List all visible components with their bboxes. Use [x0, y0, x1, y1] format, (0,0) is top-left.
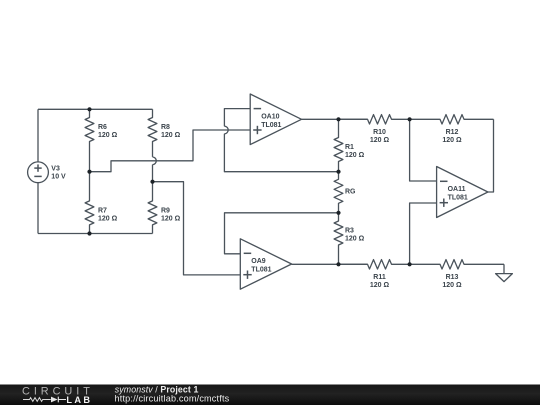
junction node at 409.6,119.3	[408, 117, 412, 121]
svg-text:120 Ω: 120 Ω	[161, 216, 181, 223]
op-amp OA11	[437, 167, 488, 218]
wire OA11 output feedback to R12	[488, 119, 494, 192]
svg-text:120 Ω: 120 Ω	[345, 236, 365, 243]
svg-text:R12: R12	[446, 129, 459, 136]
svg-text:R10: R10	[373, 129, 386, 136]
wire V3 bottom lead	[37, 183, 39, 234]
junction node at 338.5,119.3	[336, 117, 340, 121]
svg-text:OA9: OA9	[251, 258, 265, 265]
svg-text:OA10: OA10	[261, 113, 279, 120]
svg-text:10 V: 10 V	[51, 173, 66, 180]
svg-text:R11: R11	[373, 274, 386, 281]
wire OA9 output to bottom rail	[292, 263, 368, 265]
junction node at 89.5,109.3	[87, 107, 91, 111]
wire OA11 plus input from R11-R13 node	[410, 203, 437, 264]
wire top rail V3 to R8	[38, 108, 153, 110]
svg-text:120 Ω: 120 Ω	[345, 152, 365, 159]
logo diode	[51, 397, 58, 403]
resistor R6	[85, 109, 118, 171]
svg-text:http://circuitlab.com/cmctfts: http://circuitlab.com/cmctfts	[115, 393, 230, 403]
resistor R8	[148, 109, 181, 157]
wire R8 to node	[152, 165, 154, 182]
svg-text:V3: V3	[51, 165, 60, 172]
svg-text:OA11: OA11	[448, 186, 466, 193]
wire bridge right node to OA9 plus input	[153, 182, 241, 275]
junction node at 409.6,264.3	[408, 262, 412, 266]
svg-text:120 Ω: 120 Ω	[98, 132, 118, 139]
svg-text:R9: R9	[161, 208, 170, 215]
wire V3 top lead	[37, 109, 39, 162]
wire bottom-left rail	[38, 233, 153, 235]
svg-text:R3: R3	[345, 228, 354, 235]
svg-text:120 Ω: 120 Ω	[370, 137, 390, 144]
junction node at 152.5,181.7	[150, 180, 154, 184]
svg-text:TL081: TL081	[251, 267, 271, 274]
junction node at 89.5,233.5	[87, 231, 91, 235]
resistor R10	[339, 115, 410, 144]
svg-text:120 Ω: 120 Ω	[98, 216, 118, 223]
resistor R11	[339, 260, 410, 289]
op-amp OA10	[250, 94, 301, 145]
resistor R9	[148, 182, 181, 234]
svg-text:120 Ω: 120 Ω	[442, 282, 462, 289]
svg-text:120 Ω: 120 Ω	[370, 282, 390, 289]
wire hop OA10 feedback over plus wire	[224, 126, 228, 134]
svg-text:R1: R1	[345, 144, 354, 151]
resistor RG	[334, 172, 356, 213]
wire ground stub	[503, 264, 505, 273]
wire OA10 minus input feedback	[224, 109, 338, 172]
wire hop R8 column over bridge wire	[153, 157, 157, 165]
ground	[496, 274, 513, 282]
svg-text:RG: RG	[345, 188, 356, 195]
svg-text:R6: R6	[98, 124, 107, 131]
svg-text:R7: R7	[98, 208, 107, 215]
junction node at 338.5,264.3	[336, 262, 340, 266]
svg-text:TL081: TL081	[261, 122, 281, 129]
svg-text:120 Ω: 120 Ω	[442, 137, 462, 144]
svg-text:R13: R13	[446, 274, 459, 281]
resistor R12	[410, 115, 494, 144]
svg-text:TL081: TL081	[448, 195, 468, 202]
resistor R1	[334, 119, 365, 171]
wire bridge left node to OA10 plus input	[90, 130, 251, 172]
resistor R3	[334, 213, 365, 264]
svg-text:R8: R8	[161, 124, 170, 131]
junction node at 89.5,171.7	[87, 170, 91, 174]
logo resistor zigzag	[23, 398, 51, 402]
wire OA10 output rail	[302, 118, 368, 120]
junction node at 338.5,212.8	[336, 211, 340, 215]
wire OA11 minus input from R10-R12 node	[410, 119, 437, 181]
resistor R13	[410, 260, 504, 289]
op-amp OA9	[240, 239, 291, 289]
voltage source V3	[28, 162, 66, 183]
svg-text:120 Ω: 120 Ω	[161, 132, 181, 139]
junction node at 338.5,171.7	[336, 170, 340, 174]
resistor R7	[85, 172, 118, 234]
svg-text:LAB: LAB	[66, 395, 92, 405]
wire OA9 minus input feedback	[225, 213, 339, 254]
